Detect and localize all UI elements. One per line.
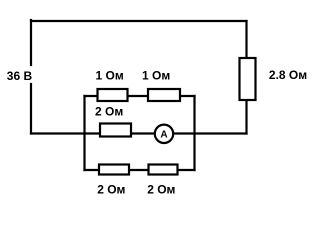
svg-text:2 Ом: 2 Ом bbox=[95, 105, 123, 119]
svg-text:1 Ом: 1 Ом bbox=[142, 69, 170, 83]
svg-text:2.8 Ом: 2.8 Ом bbox=[269, 68, 307, 82]
svg-text:36 В: 36 В bbox=[7, 69, 33, 83]
svg-text:1 Ом: 1 Ом bbox=[96, 69, 124, 83]
svg-text:2 Ом: 2 Ом bbox=[147, 182, 175, 196]
svg-text:A: A bbox=[160, 130, 167, 141]
svg-text:2 Ом: 2 Ом bbox=[97, 182, 125, 196]
